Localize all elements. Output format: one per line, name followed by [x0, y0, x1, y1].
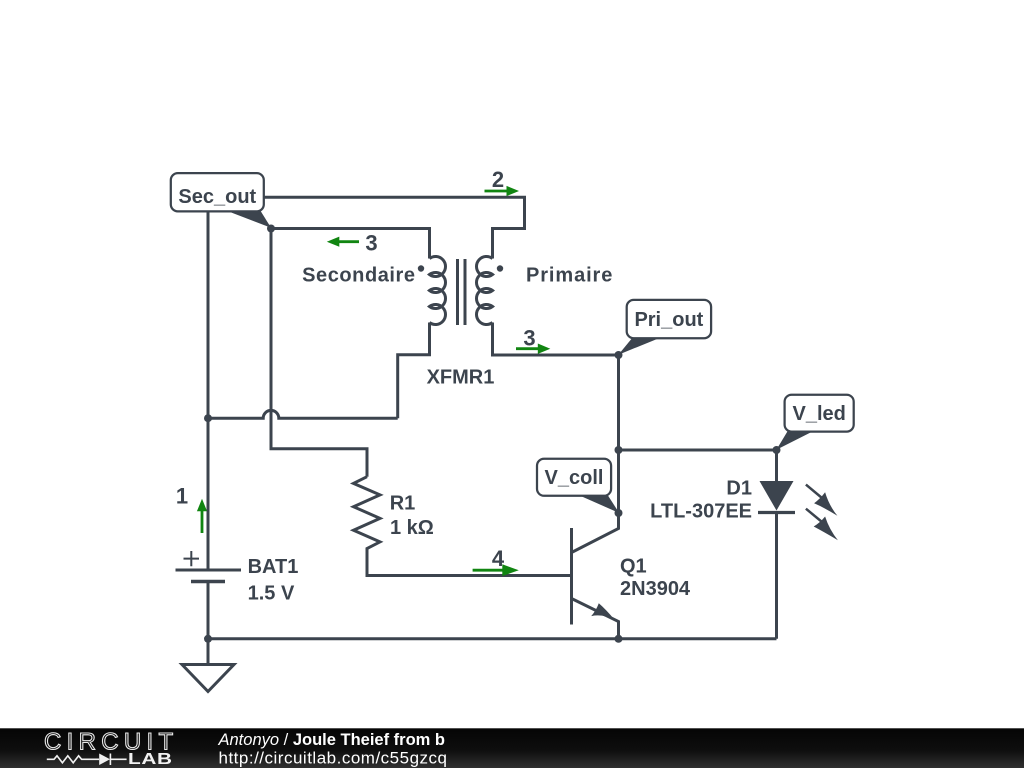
svg-text:1.5 V: 1.5 V	[248, 582, 295, 604]
svg-text:2N3904: 2N3904	[620, 578, 691, 600]
svg-text:http://circuitlab.com/c55gzcq: http://circuitlab.com/c55gzcq	[219, 749, 448, 768]
svg-text:Pri_out: Pri_out	[634, 309, 703, 331]
svg-text:XFMR1: XFMR1	[427, 367, 495, 389]
svg-text:BAT1: BAT1	[248, 556, 299, 578]
svg-text:Sec_out: Sec_out	[178, 186, 256, 208]
svg-text:LTL-307EE: LTL-307EE	[650, 500, 752, 522]
svg-text:Q1: Q1	[620, 555, 647, 577]
svg-text:1: 1	[176, 483, 188, 508]
svg-text:3: 3	[365, 231, 377, 256]
svg-text:V_coll: V_coll	[545, 467, 604, 489]
svg-text:Antonyo / Joule Theief from b: Antonyo / Joule Theief from b	[218, 731, 446, 749]
svg-text:R1: R1	[390, 493, 416, 515]
svg-text:Primaire: Primaire	[526, 265, 613, 287]
svg-text:Secondaire: Secondaire	[302, 265, 415, 287]
svg-text:D1: D1	[726, 478, 752, 500]
svg-text:2: 2	[492, 167, 504, 192]
svg-text:LAB: LAB	[128, 749, 173, 767]
svg-text:V_led: V_led	[793, 403, 846, 425]
svg-text:1 kΩ: 1 kΩ	[390, 517, 434, 539]
svg-text:3: 3	[523, 325, 535, 350]
